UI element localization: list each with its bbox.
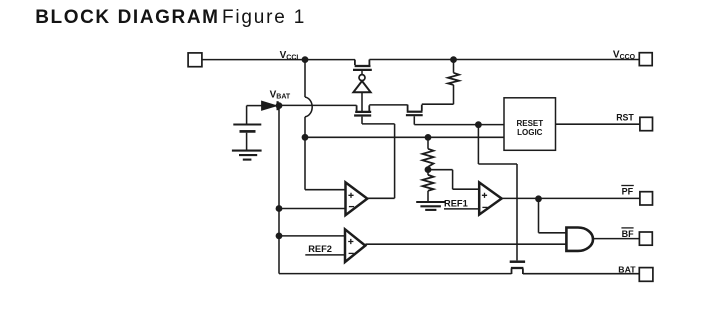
pin VCCO square [639, 53, 652, 66]
node R1 top junction [450, 56, 457, 63]
wire VCC sense line [305, 136, 504, 138]
node sense junction [302, 134, 309, 141]
wire Q3 drain to R1 [422, 85, 454, 104]
svg-text:VCCO: VCCO [613, 50, 636, 61]
wire Q2 gate to U2 output [362, 117, 395, 199]
transistor Q1 PMOS switch [353, 60, 372, 75]
wire Q2-Q3 link [369, 104, 407, 106]
inverter U1 driving Q1 gate [353, 75, 370, 93]
resistor R1 [448, 73, 459, 85]
resistor R2 [423, 137, 434, 169]
ground divider [416, 202, 445, 210]
wire U3 plus input [279, 235, 345, 237]
wire U3 output [365, 243, 566, 245]
wire diode anode [247, 105, 262, 107]
wire VBAT line to Q2 [279, 104, 357, 106]
node divider top junction [425, 134, 432, 141]
pin PF square [640, 192, 653, 205]
wire BAT line left [279, 273, 512, 275]
wire REF1 stub [444, 208, 479, 210]
wire REF2 stub [305, 254, 345, 256]
wire VBAT vertical rail [278, 106, 280, 274]
svg-text:RST: RST [616, 113, 634, 123]
svg-text:PF: PF [622, 186, 634, 196]
transistor Q2 NMOS switch [354, 105, 371, 115]
wire U2 minus input [279, 208, 346, 210]
wire gate net to Q4 [478, 125, 517, 261]
comparator U4 [479, 182, 501, 214]
svg-text:RESET: RESET [516, 119, 543, 128]
node VBAT junction [276, 102, 283, 109]
pin VCCI input square [188, 53, 202, 67]
svg-text:BF: BF [622, 229, 634, 239]
wire crossover hop [305, 97, 312, 117]
svg-text:BLOCK DIAGRAM: BLOCK DIAGRAM [35, 7, 219, 28]
svg-text:LOGIC: LOGIC [517, 128, 543, 137]
comparator U3 [345, 229, 365, 262]
wire tap to U4 plus [428, 170, 479, 190]
wire BAT line right [523, 273, 639, 275]
wire Q3 gate to reset logic [414, 116, 504, 124]
wire U4 output PF line [502, 197, 640, 199]
node U3 plus junction [276, 233, 283, 240]
wire VCCI vertical rail lower [304, 117, 306, 190]
block reset logic [504, 98, 556, 151]
wire VCCI rail left [202, 59, 355, 61]
node gate net junction [475, 121, 482, 128]
wire AND input A [539, 199, 567, 233]
wire RST [556, 123, 640, 125]
wire VCCI vertical rail upper [304, 60, 306, 98]
comparator U2 [346, 182, 368, 215]
wire U2 output [367, 197, 394, 199]
ground battery [232, 151, 262, 160]
node VCCI junction [302, 56, 309, 63]
node PF branch [535, 195, 542, 202]
wire U2 plus input [305, 189, 346, 191]
overline BF [621, 227, 633, 229]
svg-text:REF1: REF1 [444, 198, 468, 208]
wire U1 input [361, 92, 363, 111]
pin RST square [640, 117, 653, 130]
node U2 minus junction [276, 205, 283, 212]
svg-text:Figure 1: Figure 1 [222, 7, 306, 28]
diode D1 battery isolation [262, 101, 278, 110]
gate U5 AND [566, 228, 593, 251]
pin BF square [639, 232, 652, 245]
transistor Q4 NMOS battery switch [510, 262, 525, 274]
transistor Q3 NMOS switch [406, 105, 423, 116]
wire VCCI rail right [369, 59, 639, 61]
battery B1 [233, 106, 261, 150]
svg-text:REF2: REF2 [308, 244, 332, 254]
svg-text:VBAT: VBAT [270, 89, 291, 100]
node divider tap [425, 166, 432, 173]
svg-text:BAT: BAT [618, 264, 636, 274]
resistor R3 [423, 170, 434, 202]
wire BF [593, 238, 639, 240]
overline PF [621, 185, 634, 187]
pin BAT square [639, 268, 653, 282]
wire R1 top [453, 60, 455, 73]
